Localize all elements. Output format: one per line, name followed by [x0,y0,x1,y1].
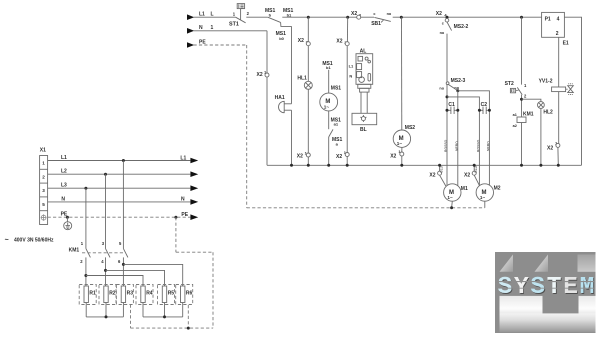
svg-text:BL: BL [360,127,367,133]
lamp HL1 [297,75,312,89]
wire column b (M1 aux) [457,91,459,186]
motor M1 [429,165,468,208]
svg-text:SB1: SB1 [371,21,381,27]
wire row N [48,201,191,203]
wire N drop [266,31,268,166]
wire row L2 [48,173,191,175]
wire AL to BL [360,92,362,113]
svg-text:X1: X1 [40,147,46,153]
wire top line A [282,16,374,18]
svg-text:N: N [349,74,352,79]
svg-text:S: S [530,274,545,301]
resistor R2 [99,285,116,305]
svg-text:ROSSO: ROSSO [444,139,448,152]
wire row L3 [48,187,191,189]
svg-text:no: no [387,12,392,16]
svg-text:MS2-2: MS2-2 [454,24,469,30]
svg-text:X2: X2 [351,11,357,17]
svg-text:1~: 1~ [447,195,453,200]
svg-text:400V 3N 50/60Hz: 400V 3N 50/60Hz [14,238,54,244]
wire timer column [328,70,330,93]
svg-text:c: c [442,21,444,25]
svg-text:HL2: HL2 [543,110,553,116]
junction top at HL1 column [307,16,310,19]
svg-text:a1: a1 [513,113,517,117]
svg-text:R3: R3 [127,290,134,296]
svg-text:MS2: MS2 [405,125,416,131]
contact MS1 b changeover [265,8,294,26]
wire MS2 column [401,17,403,130]
svg-text:HA1: HA1 [275,95,285,101]
wire P1 pin2 down [558,37,560,87]
svg-text:X2: X2 [547,145,553,151]
svg-text:R4: R4 [146,290,153,296]
svg-text:3: 3 [42,188,45,193]
junction P1 column [520,16,523,19]
svg-text:X2: X2 [429,173,435,179]
buzzer HA1 [275,95,292,113]
feed arrow N [187,28,194,34]
motor MS2 [393,125,415,147]
resistor R5 [158,285,175,305]
junction M1 PE [450,206,453,209]
svg-text:R2: R2 [109,290,116,296]
svg-text:5: 5 [42,202,45,207]
ground earth symbol [64,217,72,230]
svg-text:Y: Y [514,274,529,301]
feed arrow L1 [187,14,194,20]
contactor KM1 poles [69,241,128,264]
svg-text:X2: X2 [436,11,442,17]
junction ST2 out [520,98,523,101]
solenoid YV1-2 [539,79,574,95]
svg-text:P1: P1 [545,16,551,22]
junction a branch [446,95,449,98]
feed arrow PE [187,42,194,48]
svg-text:MS2-3: MS2-3 [451,78,466,84]
svg-text:M2: M2 [494,185,501,191]
contact MS1 a1/a [329,117,343,146]
contact MS2-3 changeover [439,78,465,91]
svg-text:PE: PE [199,39,206,45]
svg-text:X2: X2 [336,38,342,44]
svg-text:1~: 1~ [480,195,486,200]
svg-text:~: ~ [5,237,9,244]
svg-text:a1: a1 [334,122,339,127]
svg-text:L3: L3 [61,183,67,189]
logo 4 SYSTEM [495,252,596,333]
svg-text:b1: b1 [326,65,331,70]
wire HL1 column [307,17,309,42]
svg-text:MS1: MS1 [331,85,342,91]
svg-text:E: E [563,274,578,301]
svg-text:ST2: ST2 [505,81,514,87]
switch ST2 [505,81,527,98]
contact MS2-2 [440,21,469,34]
junction bus dots [290,164,293,167]
svg-text:L1: L1 [180,155,186,161]
svg-text:T: T [547,274,562,301]
svg-text:1: 1 [42,161,45,166]
svg-text:L2: L2 [61,169,67,175]
wire L1 feed [194,16,236,18]
svg-text:M: M [580,274,595,301]
capacitor C2 [478,102,491,114]
wire N feed [194,30,268,32]
wire column a (M1 main) [446,85,448,186]
svg-text:X2: X2 [257,72,263,78]
coil KM1 [513,111,534,128]
wire ST2 column [521,17,523,84]
lamp HL2 [522,99,554,115]
svg-text:E1: E1 [563,40,569,46]
capacitor C1 [446,102,460,114]
lamp unit BL [352,113,377,133]
svg-text:1~: 1~ [397,141,403,146]
svg-text:4: 4 [557,16,560,22]
wire branch a to c [447,97,479,186]
wire HA1 to bus [291,110,293,165]
svg-text:X2: X2 [464,173,470,179]
resistor R1 [79,285,96,305]
wire KM1 out 2 [85,257,87,286]
wire resistor bottoms group1 [85,303,87,317]
junction top at AL column [346,16,349,19]
wire KM1 out 6 [122,257,124,286]
svg-text:X2: X2 [336,154,342,160]
junction MS2 column [400,16,403,19]
wire row PE dashed [48,216,191,218]
svg-text:1~: 1~ [324,105,330,110]
svg-text:S: S [498,274,513,301]
resistor R6 [176,285,193,305]
svg-text:L1: L1 [61,155,67,161]
wire row L1 [48,160,191,162]
resistor R4 [136,285,153,305]
svg-text:ROSSO: ROSSO [477,139,481,152]
svg-text:KM1: KM1 [69,248,80,254]
svg-text:X2: X2 [390,153,396,159]
wire N bus [267,164,582,166]
svg-text:no: no [440,31,445,35]
svg-text:X2: X2 [297,154,303,160]
svg-text:KM1: KM1 [523,111,534,117]
svg-text:L: L [211,12,214,18]
svg-text:NERO: NERO [487,141,491,151]
svg-text:NERO: NERO [455,141,459,151]
svg-text:PE: PE [181,212,188,218]
svg-text:N: N [181,197,185,203]
svg-text:no: no [439,87,444,91]
motor MS1 timer [320,85,341,110]
svg-text:M1: M1 [461,186,468,192]
wire KM1 out 4 [105,257,107,286]
svg-text:R6: R6 [186,290,193,296]
svg-text:R1: R1 [89,290,96,296]
svg-text:L1: L1 [349,64,354,69]
svg-text:2: 2 [556,31,559,37]
svg-text:R5: R5 [168,290,175,296]
resistor R3 [116,285,133,305]
wire b0 drop [291,26,293,103]
wire top line B [393,16,542,18]
svg-text:a2: a2 [513,124,517,128]
wire MS2-2 down [446,34,448,82]
svg-text:c: c [373,12,375,16]
wire branch b to d [458,91,490,186]
wire PE dashed [194,44,247,46]
wire PE dashed resistor routing [175,217,177,252]
terminal strip X1 [40,147,48,224]
svg-text:X2: X2 [298,38,304,44]
svg-text:HL1: HL1 [297,75,307,81]
svg-text:YV1-2: YV1-2 [539,79,553,85]
svg-text:2: 2 [42,174,45,179]
thermostat P1 [542,12,565,37]
svg-text:N: N [199,25,203,31]
svg-text:b0: b0 [279,36,284,41]
wire KM1 pole drops [122,161,124,249]
wire P1 pin4 wrap [564,17,581,165]
connector AL [349,49,373,85]
switch ST1 [229,4,250,28]
junction b head [456,89,459,92]
junction MS2-2 column [446,16,449,19]
svg-text:L1: L1 [199,12,205,18]
wire ST1 to MS1 b [246,16,267,18]
motor M2 [464,165,501,208]
connector AL plug [358,84,371,92]
svg-text:1: 1 [211,25,214,31]
wire resistor bottoms group2 [142,303,144,317]
svg-text:ST1: ST1 [229,22,239,28]
pushbutton SB1 [371,12,392,27]
svg-text:N: N [61,196,65,202]
